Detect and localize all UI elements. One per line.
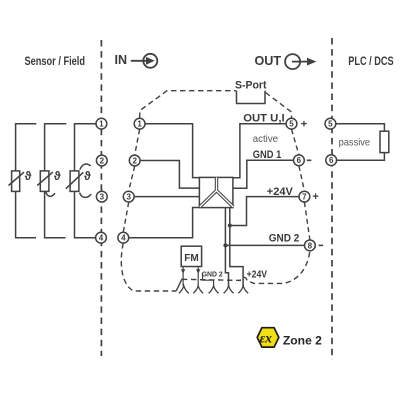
- wire terminal 1 to isolator: [145, 124, 199, 178]
- module boundary bottom-left curve (dashed): [121, 243, 176, 291]
- S-Port connector bracket: [237, 91, 266, 104]
- RTD sensor 2 bottom wire: [45, 191, 66, 237]
- module boundary S-Port to terminal 5 (dashed): [266, 93, 292, 119]
- svg-text:3: 3: [126, 193, 131, 202]
- terminal circle 4 zone: [96, 232, 107, 243]
- svg-text:Sensor / Field: Sensor / Field: [25, 54, 86, 68]
- svg-text:S-Port: S-Port: [235, 80, 267, 92]
- module boundary top-left (dashed): [140, 91, 236, 118]
- svg-text:4: 4: [121, 234, 126, 243]
- wire isolator to terminal 6 (GND 1): [233, 160, 294, 188]
- terminal circle 2 zone: [96, 155, 107, 166]
- svg-text:1: 1: [137, 120, 142, 129]
- zone boundary right (dashed): [331, 38, 333, 360]
- wire GND2 to terminal 8: [225, 244, 304, 246]
- wire GND2 clamp stub: [203, 273, 214, 286]
- wire terminal 2 to isolator: [140, 161, 199, 189]
- svg-text:6: 6: [297, 156, 302, 165]
- svg-text:εx: εx: [260, 330, 273, 345]
- RTD sensor 3 top extra wire hook: [80, 164, 91, 170]
- svg-text:ϑ: ϑ: [84, 171, 91, 183]
- isolator U1 body: [199, 177, 233, 207]
- terminal circle 2 module: [129, 155, 140, 166]
- terminal circle 3 module: [123, 191, 134, 202]
- terminal circle 4 module: [118, 232, 129, 243]
- svg-text:+: +: [301, 118, 307, 130]
- OUT symbol (arrow out of circle): [285, 54, 316, 69]
- clamp terminal 3: [209, 286, 219, 293]
- RTD sensor 2 extra wire hook: [46, 192, 55, 197]
- svg-text:8: 8: [308, 241, 313, 250]
- wire GND2 rail down: [225, 208, 228, 286]
- svg-text:+24V: +24V: [267, 186, 293, 198]
- FM stub wire 1 with arrow: [181, 267, 185, 287]
- svg-text:GND 1: GND 1: [253, 149, 282, 161]
- junction +24V: [228, 224, 232, 228]
- svg-text:GND 2: GND 2: [269, 233, 300, 245]
- svg-text:GND 2: GND 2: [202, 269, 223, 278]
- terminal circle 1 zone: [96, 118, 107, 129]
- terminal circle 6 module: [294, 155, 305, 166]
- svg-text:OUT: OUT: [255, 54, 282, 68]
- passive load wire loop: [336, 124, 385, 161]
- terminal circle 8 module: [305, 240, 316, 251]
- svg-text:PLC / DCS: PLC / DCS: [348, 54, 394, 68]
- svg-text:Zone 2: Zone 2: [283, 334, 322, 348]
- junction GND2: [223, 243, 227, 247]
- polarity - at terminal 6: [307, 159, 312, 161]
- svg-text:5: 5: [328, 120, 333, 129]
- wire terminal 4 to isolator: [129, 208, 200, 238]
- polarity - at terminal 8: [319, 244, 324, 246]
- clamp terminal 1: [179, 286, 189, 293]
- module boundary diagonal step: [176, 279, 182, 291]
- FM approval box: [181, 246, 201, 266]
- RTD sensor 1 top wire: [16, 124, 37, 171]
- RTD sensor 3 top wire: [75, 124, 97, 171]
- FM stub wire 2 with arrow: [196, 267, 200, 287]
- wire terminal 3 to isolator: [134, 196, 199, 198]
- svg-text:4: 4: [99, 234, 104, 243]
- RTD sensor 3 body: [66, 171, 83, 192]
- wire +24V rail down: [230, 208, 243, 286]
- terminal circle 5 zone: [325, 118, 336, 129]
- svg-text:IN: IN: [115, 53, 128, 67]
- terminal circle 1 module: [134, 118, 145, 129]
- terminal circle 6 zone: [326, 155, 337, 166]
- clamp terminal 4: [224, 286, 234, 293]
- terminal circle 5 module: [286, 118, 297, 129]
- svg-text:7: 7: [302, 193, 307, 202]
- RTD sensor 2 top wire: [45, 124, 67, 171]
- svg-text:ϑ: ϑ: [54, 171, 61, 183]
- module boundary left terminal chain (dashed): [123, 129, 139, 232]
- zone boundary left (dashed): [100, 40, 102, 356]
- clamp terminal 2: [193, 286, 203, 293]
- svg-text:+: +: [312, 191, 318, 203]
- RTD sensor 1 body: [9, 171, 25, 192]
- Ex hexagon symbol: [257, 328, 279, 347]
- svg-text:OUT U,I: OUT U,I: [243, 113, 284, 125]
- svg-text:6: 6: [329, 156, 334, 165]
- terminal circle 7 module: [299, 191, 310, 202]
- wire isolator to terminal 5: [233, 124, 286, 178]
- terminal circle 3 zone: [96, 191, 107, 202]
- module boundary right terminal chain (dashed): [292, 129, 310, 239]
- svg-text:+24V: +24V: [247, 270, 268, 281]
- RTD sensor 3 bottom wire: [75, 191, 96, 237]
- svg-text:ϑ: ϑ: [25, 171, 32, 183]
- clamp terminal 5: [238, 286, 248, 293]
- svg-text:1: 1: [99, 120, 104, 129]
- svg-text:2: 2: [100, 156, 105, 165]
- wire terminal 7 (+24V): [230, 197, 299, 226]
- module boundary bottom edge with wire hop (dashed): [182, 251, 310, 283]
- svg-text:5: 5: [289, 120, 294, 129]
- svg-text:3: 3: [100, 193, 105, 202]
- svg-text:FM: FM: [184, 253, 198, 264]
- svg-text:passive: passive: [339, 137, 371, 149]
- RTD sensor 1 bottom wire: [16, 191, 36, 237]
- RTD sensor 2 body: [37, 171, 53, 192]
- svg-text:active: active: [253, 133, 279, 145]
- passive load resistor: [380, 131, 389, 152]
- IN symbol (arrow into circle): [131, 54, 158, 68]
- RTD sensor 3 bottom extra wire hook: [80, 193, 92, 198]
- svg-text:2: 2: [132, 156, 137, 165]
